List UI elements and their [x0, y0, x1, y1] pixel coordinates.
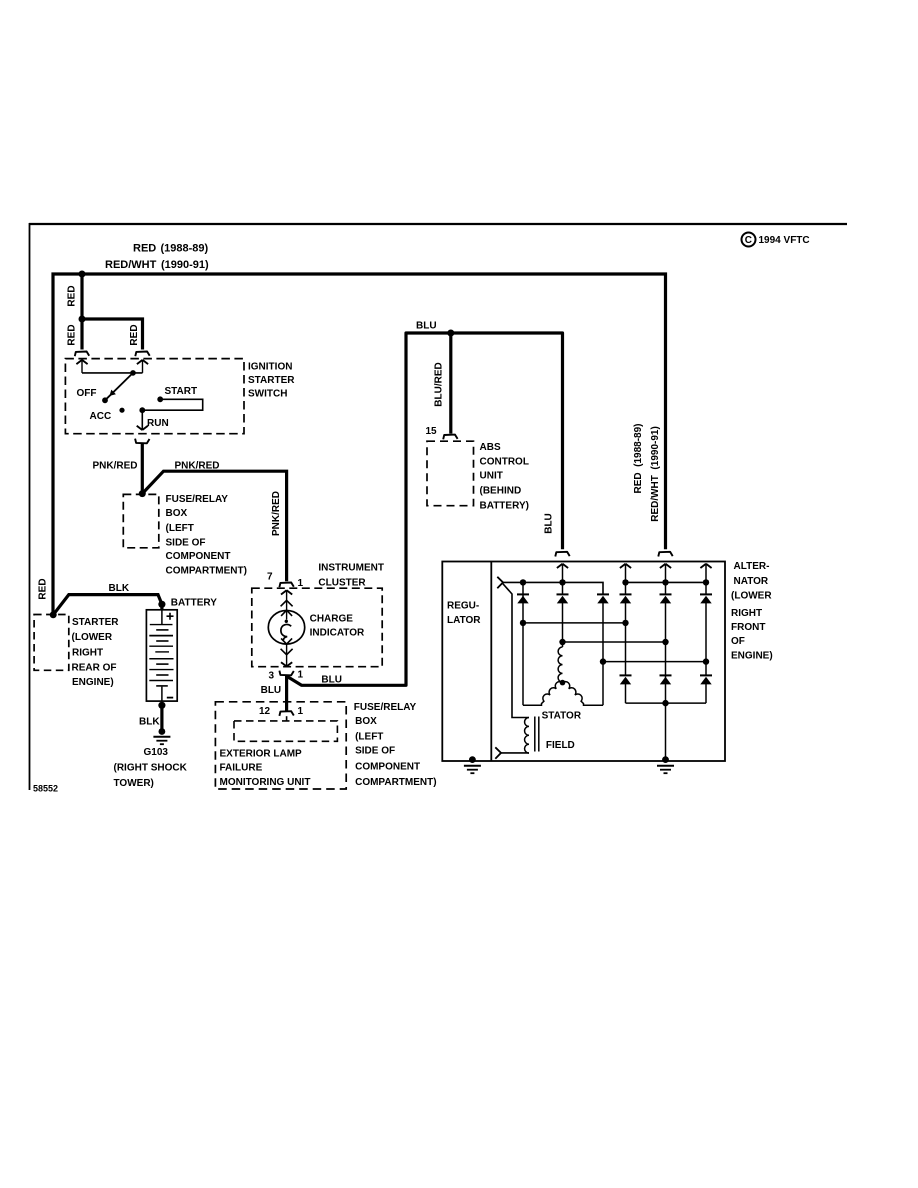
svg-text:REGU-: REGU-	[447, 601, 479, 612]
label EXTERIOR LAMP FAILURE MONITORING UNIT	[220, 749, 311, 788]
wire phase bus B	[563, 641, 666, 643]
svg-text:(RIGHT SHOCK: (RIGHT SHOCK	[114, 762, 188, 773]
node phase B c5	[662, 639, 668, 645]
svg-text:1: 1	[298, 578, 304, 589]
label IGNITION STARTER SWITCH	[248, 362, 295, 400]
svg-text:BOX: BOX	[166, 508, 188, 519]
wire column 3 lower	[602, 603, 604, 705]
wire ground bus	[626, 702, 707, 704]
wire PNK/RED from switch	[141, 444, 144, 494]
svg-text:RED: RED	[67, 285, 78, 306]
svg-text:FUSE/RELAY: FUSE/RELAY	[166, 494, 229, 505]
wire B+ bus right	[626, 581, 707, 583]
wire BLU cluster pin 3 down	[285, 676, 288, 711]
node ground bus c5	[662, 700, 668, 706]
svg-text:15: 15	[426, 426, 438, 437]
svg-text:ENGINE): ENGINE)	[72, 677, 114, 688]
svg-text:EXTERIOR LAMP: EXTERIOR LAMP	[220, 749, 303, 760]
wire column 5 lower	[665, 603, 667, 761]
ground G103	[153, 728, 170, 744]
svg-text:COMPARTMENT): COMPARTMENT)	[355, 777, 436, 788]
node phase C c3	[600, 658, 606, 664]
node battery positive	[158, 601, 165, 608]
terminal arrow column 6	[700, 564, 711, 595]
wire phase bus A	[523, 622, 626, 624]
svg-text:(1988-89): (1988-89)	[161, 243, 209, 255]
svg-text:LATOR: LATOR	[447, 615, 481, 626]
svg-text:BLK: BLK	[139, 717, 160, 728]
stator winding phase coil top	[558, 647, 562, 682]
wire BLU cluster to alternator via top run	[288, 333, 563, 685]
svg-text:COMPARTMENT): COMPARTMENT)	[166, 566, 247, 577]
connector male arrow ignition pin right	[137, 360, 148, 373]
diode D2	[557, 594, 569, 603]
wire switch common feed	[82, 372, 143, 374]
wire RUN output with arrow	[137, 410, 148, 430]
svg-text:PNK/RED: PNK/RED	[93, 460, 138, 471]
svg-text:CHARGE: CHARGE	[310, 614, 354, 625]
svg-text:BOX: BOX	[355, 716, 377, 727]
svg-text:MONITORING UNIT: MONITORING UNIT	[220, 777, 311, 788]
svg-text:RED: RED	[133, 243, 156, 255]
svg-text:(LOWER: (LOWER	[72, 632, 113, 643]
wire RED branch to ignition switch pin 2	[82, 319, 143, 350]
diode D7	[620, 675, 632, 684]
svg-text:BLK: BLK	[109, 583, 130, 594]
connector male arrow ignition pin left	[76, 360, 87, 373]
stator winding phase coil right	[563, 682, 604, 706]
charge indicator chevron top	[281, 600, 293, 606]
diode D6	[700, 594, 712, 603]
connector regulator field return pin	[495, 747, 501, 758]
svg-text:CLUSTER: CLUSTER	[318, 577, 366, 588]
wire PNK/RED to instrument cluster	[142, 471, 286, 581]
svg-text:SWITCH: SWITCH	[248, 389, 287, 400]
monitoring unit inner module	[234, 721, 337, 741]
connector female below cluster pins 3/1	[279, 671, 293, 676]
svg-text:FRONT: FRONT	[731, 622, 765, 633]
svg-text:BATTERY): BATTERY)	[480, 500, 529, 511]
battery body	[146, 610, 177, 701]
svg-text:BLU: BLU	[416, 321, 437, 332]
svg-text:IGNITION: IGNITION	[248, 362, 292, 373]
label FUSE/RELAY BOX (LEFT SIDE OF COMPONENT COMPARTMENT)	[166, 494, 247, 577]
svg-text:FAILURE: FAILURE	[220, 762, 263, 773]
wire BLK starter to battery	[53, 595, 162, 615]
node trio bus c1	[520, 579, 526, 585]
svg-text:RED (1988-89): RED (1988-89)	[633, 423, 644, 493]
label INSTRUMENT CLUSTER	[318, 563, 384, 589]
charge indicator chevron inside bottom	[281, 638, 292, 644]
svg-text:ENGINE): ENGINE)	[731, 650, 773, 661]
label G103 (RIGHT SHOCK TOWER)	[114, 747, 188, 789]
svg-text:1: 1	[298, 670, 304, 681]
exterior lamp failure monitoring unit box	[215, 702, 346, 789]
node contact RUN	[139, 407, 145, 413]
svg-text:(BEHIND: (BEHIND	[480, 486, 522, 497]
label STARTER (LOWER RIGHT REAR OF ENGINE)	[72, 617, 120, 688]
connector female below switch	[135, 439, 149, 444]
ABS control unit box	[427, 441, 474, 506]
node switch pivot	[130, 370, 136, 376]
svg-text:STARTER: STARTER	[248, 375, 295, 386]
svg-text:7: 7	[267, 572, 273, 583]
svg-text:FIELD: FIELD	[546, 740, 575, 751]
svg-text:3: 3	[269, 671, 275, 682]
connector female cluster pin 7/1	[279, 583, 293, 588]
connector female ignition pin right	[135, 352, 149, 357]
wire BLK battery to ground	[160, 705, 163, 731]
node junction RED branch	[79, 316, 86, 323]
svg-text:STATOR: STATOR	[542, 711, 582, 722]
svg-text:INSTRUMENT: INSTRUMENT	[318, 563, 384, 574]
connector female ignition pin left	[75, 352, 89, 357]
svg-text:UNIT: UNIT	[480, 471, 503, 482]
wire column 6 lower	[705, 603, 707, 676]
stator winding phase coil left	[523, 682, 563, 706]
charge indicator chevron bottom	[281, 649, 293, 655]
diode D5	[660, 594, 672, 603]
wire main RED battery bus	[53, 274, 666, 616]
svg-text:START: START	[165, 386, 198, 397]
svg-text:1994 VFTC: 1994 VFTC	[759, 235, 810, 246]
svg-text:COMPONENT: COMPONENT	[355, 761, 420, 772]
wire BLU/RED to ABS	[449, 333, 452, 434]
node battery negative	[158, 702, 165, 709]
wire field return	[501, 752, 530, 754]
svg-text:INDICATOR: INDICATOR	[310, 628, 365, 639]
diode D4	[620, 594, 632, 603]
ground alternator rectifier	[657, 756, 674, 773]
node phase A c1	[520, 620, 526, 626]
svg-text:RED: RED	[129, 324, 140, 345]
svg-text:RED: RED	[38, 578, 49, 599]
svg-text:RIGHT: RIGHT	[731, 608, 762, 619]
wire column 1	[522, 582, 524, 705]
ignition starter switch box	[65, 359, 244, 434]
wire column 6 below diode	[705, 684, 707, 703]
switch lever with arrowhead	[102, 373, 133, 403]
svg-text:TOWER): TOWER)	[114, 778, 154, 789]
wire cluster output with arrow down	[281, 644, 292, 666]
copyright mark 1994 VFTC	[742, 233, 810, 247]
svg-text:OFF: OFF	[77, 388, 97, 399]
node B+ bus c4	[622, 579, 628, 585]
svg-text:FUSE/RELAY: FUSE/RELAY	[354, 702, 417, 713]
starter box	[34, 615, 69, 671]
svg-text:ALTER-: ALTER-	[734, 561, 770, 572]
svg-text:PNK/RED: PNK/RED	[271, 491, 282, 536]
label ABS CONTROL UNIT (BEHIND BATTERY)	[480, 442, 529, 511]
svg-text:RED/WHT: RED/WHT	[105, 259, 157, 271]
connector male arrow RED terminal	[660, 564, 671, 595]
svg-text:BLU: BLU	[261, 685, 282, 696]
svg-text:(LOWER: (LOWER	[731, 591, 772, 602]
svg-text:BLU: BLU	[544, 513, 555, 534]
svg-text:ACC: ACC	[90, 411, 112, 422]
svg-text:(LEFT: (LEFT	[355, 731, 383, 742]
label ALTER-NATOR (LOWER RIGHT FRONT OF ENGINE)	[731, 561, 773, 661]
svg-text:OF: OF	[731, 636, 745, 647]
connector male arrow into cluster	[281, 590, 292, 619]
wire column 4 below diode	[625, 684, 627, 703]
svg-text:STARTER: STARTER	[72, 617, 119, 628]
charge indicator chevron inside top	[281, 610, 292, 616]
ground regulator case	[464, 756, 481, 773]
node B+ bus c5	[662, 579, 668, 585]
svg-text:C: C	[745, 235, 752, 246]
svg-text:G103: G103	[144, 747, 169, 758]
charge indicator coil squiggle	[285, 620, 288, 623]
charge indicator lamp circle	[268, 611, 304, 645]
connector female alternator RED terminal	[658, 552, 672, 557]
svg-text:SIDE OF: SIDE OF	[166, 538, 206, 549]
node phase B c2	[559, 639, 565, 645]
wire column 2 lower	[562, 603, 564, 647]
node contact ACC	[119, 408, 124, 413]
fuse relay box (left)	[123, 494, 159, 547]
svg-text:CONTROL: CONTROL	[480, 457, 529, 468]
connector female alternator BLU terminal	[555, 552, 569, 557]
node phase A c4	[622, 620, 628, 626]
wire phase bus C	[603, 661, 706, 663]
node B+ bus c6	[703, 579, 709, 585]
svg-text:RIGHT: RIGHT	[72, 647, 103, 658]
svg-text:RED: RED	[67, 324, 78, 345]
node junction on bus	[79, 271, 86, 278]
label REGU-LATOR	[447, 601, 481, 627]
terminal arrow column 4	[620, 564, 631, 595]
connector regulator output pin	[497, 577, 503, 588]
field core lines	[535, 717, 539, 752]
diode D9	[700, 675, 712, 684]
svg-text:12: 12	[259, 706, 271, 717]
connector female ABS pin 15	[443, 435, 457, 440]
wire regulator to field	[503, 584, 529, 718]
node junction at starter	[50, 611, 57, 618]
diode D8	[660, 675, 672, 684]
wire RED drop to ignition switch	[80, 274, 83, 350]
wire column 4 lower	[625, 603, 627, 676]
svg-text:SIDE OF: SIDE OF	[355, 746, 395, 757]
label wire legend RED/WHT (1990-91)	[105, 259, 209, 271]
connector female exterior lamp pins 12/1	[279, 711, 293, 716]
node phase C c6	[703, 658, 709, 664]
wire diode trio bus	[503, 582, 604, 594]
node trio bus c2	[559, 579, 565, 585]
regulator divider	[490, 562, 492, 762]
svg-text:COMPONENT: COMPONENT	[166, 551, 231, 562]
connector male arrow BLU terminal	[557, 564, 568, 595]
alternator U1 housing	[442, 562, 725, 762]
diode D3	[597, 594, 609, 603]
instrument cluster box	[252, 588, 382, 667]
svg-text:RUN: RUN	[147, 418, 169, 429]
node junction BLU	[447, 330, 454, 337]
svg-text:RED/WHT (1990-91): RED/WHT (1990-91)	[650, 426, 661, 522]
svg-text:(LEFT: (LEFT	[166, 523, 194, 534]
diode D1	[517, 594, 529, 603]
wire stub into monitoring unit	[286, 716, 288, 721]
svg-text:ABS: ABS	[480, 442, 501, 453]
svg-text:BATTERY: BATTERY	[171, 598, 217, 609]
node contact START	[157, 396, 163, 402]
label CHARGE INDICATOR	[310, 614, 365, 639]
label FUSE/RELAY BOX (LEFT SIDE OF COMPONENT COMPARTMENT) right	[354, 702, 437, 788]
node stator star point	[560, 680, 566, 686]
svg-text:BLU/RED: BLU/RED	[434, 362, 445, 406]
field winding coil	[525, 718, 529, 754]
wire START to RUN link	[142, 399, 202, 410]
label wire legend RED (1988-89)	[133, 243, 209, 255]
svg-text:(1990-91): (1990-91)	[161, 259, 209, 271]
svg-text:58552: 58552	[33, 784, 58, 794]
node junction PNK/RED at fuse box	[139, 490, 146, 497]
svg-text:NATOR: NATOR	[734, 576, 769, 587]
svg-text:REAR OF: REAR OF	[72, 663, 117, 674]
svg-text:1: 1	[298, 706, 304, 717]
